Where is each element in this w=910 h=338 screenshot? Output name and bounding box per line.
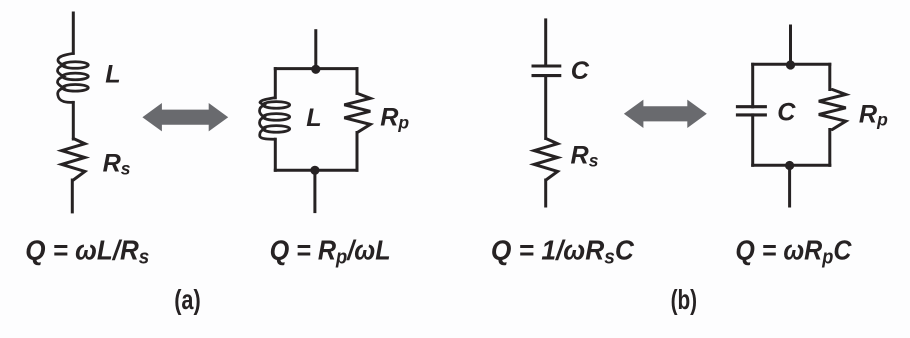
capacitor C (b-parallel): [736, 107, 767, 115]
node: (b) tank bottom junction: [785, 161, 794, 170]
resistor Rs (a-series): [62, 139, 85, 181]
wire: (a) series top lead: [72, 13, 75, 53]
wire: (b) series top lead: [544, 20, 547, 66]
inductor L (a-parallel): [260, 98, 290, 140]
resistor Rs (b-series): [534, 139, 557, 181]
double arrow (b): [624, 100, 707, 128]
wire: (b) tank bottom rail: [753, 164, 830, 167]
wire: (b) tank top rail: [753, 63, 830, 66]
svg-text:Rs: Rs: [571, 141, 599, 170]
wire: (b) tank top lead: [789, 26, 792, 64]
node: (b) tank top junction: [786, 60, 795, 69]
wire: (a) tank bottom lead: [313, 170, 316, 211]
svg-text:C: C: [571, 57, 590, 85]
wire: (a) series middle segment: [72, 102, 75, 139]
wire: (a) tank right lower: [356, 133, 359, 171]
svg-text:(b): (b): [671, 284, 698, 315]
wire: (b) tank left upper: [751, 64, 754, 107]
wire: (a) series bottom lead: [71, 180, 74, 212]
svg-text:C: C: [777, 99, 796, 127]
wire: (b) series middle segment: [544, 76, 547, 139]
wire: (a) tank bottom rail: [275, 169, 357, 172]
wire: (b) tank right upper: [828, 64, 831, 89]
svg-text:(a): (a): [174, 284, 201, 315]
svg-text:Rp: Rp: [380, 103, 409, 132]
inductor L (a-series): [58, 53, 89, 102]
wire: (a) tank left upper: [274, 69, 277, 98]
wire: (b) tank right lower: [828, 130, 831, 166]
node: (a) tank top junction: [311, 65, 320, 74]
svg-text:L: L: [105, 61, 120, 89]
svg-text:Q = ωRpC: Q = ωRpC: [735, 235, 852, 269]
svg-text:Q = ωL/Rs: Q = ωL/Rs: [25, 235, 149, 269]
wire: (b) tank left lower: [751, 115, 754, 165]
resistor Rp (b-parallel): [819, 90, 846, 130]
svg-text:L: L: [306, 104, 321, 132]
svg-text:Q = Rp/ωL: Q = Rp/ωL: [270, 235, 391, 269]
capacitor C (b-series): [532, 66, 562, 76]
double arrow (a): [142, 103, 228, 131]
svg-text:Rp: Rp: [859, 101, 888, 130]
svg-text:Rs: Rs: [103, 149, 131, 178]
wire: (a) tank top rail: [275, 67, 357, 70]
svg-text:Q = 1/ωRsC: Q = 1/ωRsC: [491, 235, 635, 269]
wire: (b) series bottom lead: [544, 180, 547, 206]
wire: (a) tank top lead: [314, 31, 317, 69]
node: (a) tank bottom junction: [310, 166, 319, 175]
resistor Rp (a-parallel): [344, 93, 370, 132]
wire: (b) tank bottom lead: [788, 165, 791, 206]
wire: (a) tank left lower: [274, 139, 277, 170]
wire: (a) tank right upper: [356, 69, 359, 94]
